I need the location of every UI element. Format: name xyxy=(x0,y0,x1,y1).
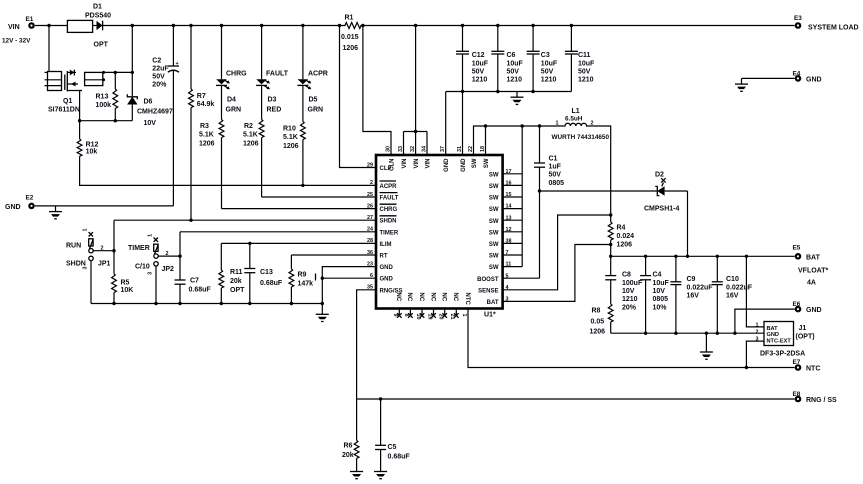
svg-text:GND: GND xyxy=(461,158,467,172)
svg-text:1: 1 xyxy=(461,314,467,317)
wire BAT pin to R4 bottom xyxy=(503,245,611,302)
svg-text:C7: C7 xyxy=(190,277,199,284)
svg-text:(OPT): (OPT) xyxy=(796,334,815,341)
svg-text:RED: RED xyxy=(267,106,282,113)
LED D4 CHRG GRN xyxy=(216,26,247,120)
svg-text:R5: R5 xyxy=(121,279,130,286)
svg-text:Q1: Q1 xyxy=(63,98,72,105)
svg-text:10uF: 10uF xyxy=(541,60,558,67)
LED D3 FAULT RED xyxy=(256,26,289,120)
svg-text:U1*: U1* xyxy=(484,312,496,319)
ground at E2 xyxy=(49,206,62,219)
svg-text:64.9k: 64.9k xyxy=(197,101,215,108)
svg-text:9: 9 xyxy=(392,314,398,317)
svg-text:5.1K: 5.1K xyxy=(243,132,258,139)
svg-text:NTC-EXT: NTC-EXT xyxy=(767,338,792,344)
wire L1 to R4 top xyxy=(594,126,611,215)
svg-text:BAT: BAT xyxy=(767,326,779,332)
svg-text:10V: 10V xyxy=(144,120,157,127)
svg-text:L1: L1 xyxy=(572,108,580,115)
svg-text:19: 19 xyxy=(426,314,432,320)
svg-text:25: 25 xyxy=(367,192,373,198)
svg-text:1210: 1210 xyxy=(622,296,638,303)
svg-text:SW: SW xyxy=(489,242,499,248)
terminal E2 GND xyxy=(5,195,34,211)
svg-text:100k: 100k xyxy=(96,102,112,109)
top pins numbers (rotated) xyxy=(386,146,487,152)
wire GND pin 6 xyxy=(322,277,376,279)
svg-text:SW: SW xyxy=(489,254,499,260)
resistor R11 20k OPT xyxy=(219,243,245,303)
svg-text:1uF: 1uF xyxy=(549,164,562,171)
svg-text:SHDN: SHDN xyxy=(66,261,86,268)
svg-text:CMPSH1-4: CMPSH1-4 xyxy=(644,205,680,212)
svg-text:R3: R3 xyxy=(200,123,209,130)
wire TIMER down through C7 xyxy=(179,232,181,280)
svg-text:R6: R6 xyxy=(344,442,353,449)
node source wire / R12 top xyxy=(78,119,81,122)
resistor R3 5.1K 1206 xyxy=(199,120,224,209)
svg-text:0.022uF: 0.022uF xyxy=(687,284,714,291)
svg-text:TIMER: TIMER xyxy=(380,230,399,236)
svg-text:CLN: CLN xyxy=(390,159,396,171)
right pins inner labels xyxy=(477,172,499,306)
terminal E4 GND xyxy=(793,70,822,83)
resistor R5 10K xyxy=(112,251,134,304)
svg-text:SW: SW xyxy=(484,158,490,168)
svg-text:D1: D1 xyxy=(93,3,102,10)
svg-text:JP1: JP1 xyxy=(98,261,111,268)
svg-text:NC: NC xyxy=(452,293,458,302)
svg-text:2: 2 xyxy=(370,180,373,186)
node rail/D5 branch xyxy=(301,24,304,27)
resistor R9 147k xyxy=(289,255,313,304)
wire VIN net rail to pins 33/32/34 xyxy=(415,26,417,132)
bottom pins NC stubs with numbers xyxy=(392,293,470,320)
svg-text:NC: NC xyxy=(429,293,435,302)
svg-text:GRN: GRN xyxy=(308,106,324,113)
wire SW pins 22/18 to SW node xyxy=(474,126,559,155)
svg-text:2: 2 xyxy=(756,330,759,336)
svg-text:E1: E1 xyxy=(26,16,34,23)
svg-text:C3: C3 xyxy=(541,52,550,59)
svg-text:RNG / SS: RNG / SS xyxy=(806,397,837,404)
svg-text:GND: GND xyxy=(806,307,822,314)
wire BOOST pin stub xyxy=(503,277,540,279)
svg-text:E6: E6 xyxy=(793,301,801,308)
resistor R1 0.015 1206 xyxy=(341,14,363,52)
terminal E3 SYSTEM LOAD xyxy=(794,15,859,31)
ground under C5 xyxy=(374,472,387,479)
svg-text:BAT: BAT xyxy=(806,254,821,261)
node rail/CLN tap xyxy=(361,24,364,27)
wire TIMER net to pin 24 xyxy=(180,231,376,233)
svg-text:0.024: 0.024 xyxy=(617,233,635,240)
svg-text:20%: 20% xyxy=(622,304,637,311)
capacitor C7 0.68uF xyxy=(175,277,212,303)
node rail/D3 branch xyxy=(260,24,263,27)
wire Q1 source drop from rail xyxy=(48,26,50,72)
svg-text:SYSTEM LOAD: SYSTEM LOAD xyxy=(808,24,859,31)
resistor R13 100k xyxy=(96,72,118,120)
capacitor C8 100uF 10V 1210 20% with series R8 xyxy=(605,256,643,311)
svg-text:16V: 16V xyxy=(687,293,700,300)
svg-text:R7: R7 xyxy=(197,93,206,100)
node rail/CLP tap xyxy=(338,24,341,27)
svg-text:SW: SW xyxy=(489,207,499,213)
svg-text:RUN: RUN xyxy=(66,243,81,250)
connector J1 DF3-3P-2DSA (OPT) xyxy=(756,322,815,358)
svg-text:GRN: GRN xyxy=(226,106,242,113)
resistor R7 64.9k xyxy=(189,26,215,221)
resistor R6 20k xyxy=(342,399,359,472)
svg-text:SW: SW xyxy=(489,219,499,225)
node rail/D6 branch xyxy=(131,24,134,27)
svg-text:0805: 0805 xyxy=(653,296,669,303)
svg-text:E4: E4 xyxy=(793,70,801,77)
svg-text:GND: GND xyxy=(5,204,21,211)
wire CHRG net to pin 26 xyxy=(222,208,377,210)
svg-text:+: + xyxy=(176,61,179,67)
capacitor C5 0.68uF xyxy=(375,399,410,472)
svg-text:C4: C4 xyxy=(653,272,662,279)
resistor R12 10k xyxy=(77,121,98,157)
wire VIN rail D1 to R1 xyxy=(103,25,344,27)
svg-text:ACPR: ACPR xyxy=(380,184,398,190)
svg-text:C13: C13 xyxy=(260,269,273,276)
svg-text:1: 1 xyxy=(83,229,89,232)
capacitor C4 10uF 10V 0805 10% xyxy=(640,256,669,333)
svg-text:FAULT: FAULT xyxy=(380,196,399,202)
resistor R4 0.024 1206 xyxy=(608,215,634,256)
svg-text:10: 10 xyxy=(415,314,421,320)
svg-text:GND: GND xyxy=(806,76,822,83)
svg-text:R1: R1 xyxy=(345,14,354,21)
wire E2 to C2 bottom xyxy=(35,205,173,207)
svg-text:ACPR: ACPR xyxy=(308,71,328,78)
svg-text:ILIM: ILIM xyxy=(380,242,392,248)
capacitor C13 0.68uF xyxy=(244,243,283,303)
wire RT net to pin 36 xyxy=(291,254,376,256)
svg-text:10K: 10K xyxy=(121,287,134,294)
node rail/D4 branch xyxy=(220,24,223,27)
wire CLP net rail to pin 29 xyxy=(340,26,377,168)
wire BOOST node to D2 xyxy=(540,190,658,192)
svg-text:VIN: VIN xyxy=(8,24,20,31)
svg-text:6.5uH: 6.5uH xyxy=(565,116,583,123)
wire BAT rail xyxy=(611,255,795,257)
terminal E8 RNG / SS xyxy=(793,391,838,404)
node rail/VIN pins tap xyxy=(414,24,417,27)
inductor L1 6.5uH WURTH 744314650 xyxy=(552,108,610,141)
svg-text:GND: GND xyxy=(380,277,394,283)
svg-text:1206: 1206 xyxy=(590,329,606,336)
wire battery cap ground bus xyxy=(611,332,764,334)
svg-text:20k: 20k xyxy=(342,452,354,459)
wire SW bus vertical xyxy=(521,126,523,267)
wire JP1 pin3 to ground rail xyxy=(90,261,92,304)
svg-text:SW: SW xyxy=(489,196,499,202)
svg-text:C2: C2 xyxy=(152,57,161,64)
svg-text:CHRG: CHRG xyxy=(226,71,247,78)
svg-text:5.1K: 5.1K xyxy=(283,134,298,141)
node ACPR / D5 column xyxy=(301,184,304,187)
op-amp U1 LT3651 body xyxy=(376,155,503,309)
svg-text:R10: R10 xyxy=(283,125,296,132)
capacitor C9 0.022uF 16V xyxy=(670,256,713,333)
svg-text:30: 30 xyxy=(386,146,392,152)
wire J1 pin1 to BAT rail xyxy=(746,256,764,327)
svg-text:4A: 4A xyxy=(807,280,816,287)
svg-text:37: 37 xyxy=(440,146,446,152)
svg-text:OPT: OPT xyxy=(230,287,245,294)
svg-text:10uF: 10uF xyxy=(578,60,595,67)
wire FAULT net to pin 25 xyxy=(262,196,376,198)
svg-text:D3: D3 xyxy=(268,97,277,104)
zener D6 CMHZ4697 10V xyxy=(127,94,173,127)
svg-text:0.68uF: 0.68uF xyxy=(260,280,283,287)
svg-text:32: 32 xyxy=(410,146,416,152)
terminal E5 BAT VFLOAT* 4A xyxy=(793,244,829,286)
svg-text:FAULT: FAULT xyxy=(266,71,289,78)
svg-text:VIN: VIN xyxy=(414,159,420,169)
svg-text:NTC: NTC xyxy=(806,366,820,373)
svg-text:26: 26 xyxy=(367,203,373,209)
svg-text:1210: 1210 xyxy=(578,77,594,84)
svg-text:C8: C8 xyxy=(622,272,631,279)
terminal E7 NTC xyxy=(793,359,821,372)
svg-text:C10: C10 xyxy=(726,276,739,283)
svg-text:50V: 50V xyxy=(472,68,485,75)
wire E6 to ground bus xyxy=(735,309,795,333)
svg-text:SW: SW xyxy=(489,184,499,190)
svg-text:10uF: 10uF xyxy=(472,60,489,67)
svg-text:DF3-3P-2DSA: DF3-3P-2DSA xyxy=(760,351,805,358)
svg-text:1206: 1206 xyxy=(283,143,299,150)
resistor R8 0.05 1206 xyxy=(590,304,614,336)
wire JP2 pin3 to ground rail xyxy=(155,266,157,304)
ground under R6 xyxy=(350,472,363,479)
svg-text:GND: GND xyxy=(767,332,779,338)
svg-text:VFLOAT*: VFLOAT* xyxy=(798,268,828,275)
node rail/R7 branch xyxy=(189,24,192,27)
svg-text:GND: GND xyxy=(444,158,450,172)
svg-text:GND: GND xyxy=(380,265,394,271)
wire Q1 source to R12/D6 node xyxy=(80,91,133,121)
capacitor C2 22uF 50V 20% (polarized) xyxy=(152,26,179,206)
svg-text:VIN: VIN xyxy=(402,159,408,169)
svg-text:BAT: BAT xyxy=(487,300,499,306)
svg-text:50V: 50V xyxy=(541,68,554,75)
svg-text:0.68uF: 0.68uF xyxy=(388,454,411,461)
svg-text:1206: 1206 xyxy=(343,45,359,52)
wire control ground rail xyxy=(91,303,322,305)
transistor Q1 SI7611DN xyxy=(45,70,106,114)
capacitor C12 10uF 50V 1210 xyxy=(456,26,489,92)
jumper JP2 TIMER/C10 xyxy=(128,234,174,275)
svg-text:SI7611DN: SI7611DN xyxy=(48,107,80,114)
wire C1/BOOST node xyxy=(538,189,541,192)
svg-text:34: 34 xyxy=(422,146,428,152)
svg-text:VIN: VIN xyxy=(426,159,432,169)
svg-text:50V: 50V xyxy=(578,68,591,75)
wire R12 to ACPR net xyxy=(80,156,376,185)
svg-text:SW: SW xyxy=(472,158,478,168)
wire GND pin 23 xyxy=(322,267,376,315)
capacitor C1 1uF 50V 0805 xyxy=(534,126,564,191)
ground input cap bus xyxy=(511,92,524,105)
svg-text:NC: NC xyxy=(395,293,401,302)
svg-text:10uF: 10uF xyxy=(507,60,524,67)
svg-text:E2: E2 xyxy=(26,195,34,202)
wire J1 pin3 to NTC net xyxy=(746,341,764,367)
svg-text:R11: R11 xyxy=(230,269,243,276)
ground control rail xyxy=(316,314,329,321)
svg-text:3: 3 xyxy=(83,267,89,270)
node rail/C3 xyxy=(531,24,534,27)
svg-text:1206: 1206 xyxy=(617,242,633,249)
wire JP1 pin2 to R5/SHDN node xyxy=(93,250,114,252)
svg-text:50V: 50V xyxy=(507,68,520,75)
svg-text:31: 31 xyxy=(457,146,463,152)
wire GND pin37 to bus xyxy=(445,92,447,156)
wire SW pins stubs to bus xyxy=(503,174,523,267)
wire RNG/SS pin 35 to E8 xyxy=(357,290,795,399)
svg-text:TIMER: TIMER xyxy=(128,245,150,252)
svg-text:PDS540: PDS540 xyxy=(85,12,111,19)
svg-text:0.68uF: 0.68uF xyxy=(189,286,212,293)
svg-text:E5: E5 xyxy=(793,244,801,251)
svg-text:SW: SW xyxy=(489,172,499,178)
svg-text:C6: C6 xyxy=(507,52,516,59)
svg-text:147k: 147k xyxy=(298,281,314,288)
capacitor C10 0.022uF 16V xyxy=(712,256,753,333)
node gate/R13 xyxy=(114,71,117,74)
svg-text:R12: R12 xyxy=(86,141,99,148)
svg-text:12V - 32V: 12V - 32V xyxy=(2,38,31,45)
svg-text:SW: SW xyxy=(489,230,499,236)
svg-text:C/10: C/10 xyxy=(135,264,150,271)
svg-text:20k: 20k xyxy=(230,278,242,285)
svg-text:0.05: 0.05 xyxy=(591,319,605,326)
wire D2 to BAT rail xyxy=(687,191,689,256)
svg-text:R4: R4 xyxy=(617,225,626,232)
svg-text:WURTH 744314650: WURTH 744314650 xyxy=(552,134,610,141)
svg-text:NC: NC xyxy=(441,293,447,302)
svg-text:1206: 1206 xyxy=(243,140,259,147)
diode D2 CMPSH1-4 (not installed) xyxy=(644,172,688,213)
wire VIN rail R1 to E3 xyxy=(363,25,795,27)
svg-text:1206: 1206 xyxy=(199,140,215,147)
svg-text:R9: R9 xyxy=(298,272,307,279)
wire SHDN down to JP1 pin2 / R5 xyxy=(113,220,115,251)
svg-text:C5: C5 xyxy=(388,444,397,451)
svg-text:C1: C1 xyxy=(549,156,558,163)
wire NTC net xyxy=(468,309,795,368)
svg-text:0.015: 0.015 xyxy=(341,34,359,41)
svg-text:29: 29 xyxy=(367,162,373,168)
node SHDN / R7 bottom xyxy=(189,219,192,222)
svg-text:10%: 10% xyxy=(653,304,668,311)
wire CLN net rail to pin 30 xyxy=(363,26,391,156)
svg-text:20%: 20% xyxy=(152,82,167,89)
svg-text:C12: C12 xyxy=(472,52,485,59)
resistor R10 5.1K 1206 xyxy=(283,122,305,186)
diode D1 PDS540 (box + diode, OPT) xyxy=(67,3,111,48)
node rail/C11 xyxy=(570,24,573,27)
svg-text:SW: SW xyxy=(489,265,499,271)
wire rail to D6 cathode xyxy=(131,26,133,97)
wire ILIM net to pin 28 xyxy=(221,242,376,244)
svg-text:3: 3 xyxy=(148,272,154,275)
jumper JP1 RUN/SHDN xyxy=(66,229,111,270)
svg-text:JP2: JP2 xyxy=(162,266,175,273)
wire E4 to ground xyxy=(742,77,795,79)
node gate/D6 vertical xyxy=(131,71,134,74)
svg-text:CHRG: CHRG xyxy=(380,207,398,213)
capacitor C3 10uF 50V 1210 xyxy=(527,26,558,92)
svg-text:SHDN: SHDN xyxy=(380,219,397,225)
svg-text:1210: 1210 xyxy=(541,77,557,84)
svg-text:D6: D6 xyxy=(144,98,153,105)
svg-text:10k: 10k xyxy=(86,149,98,156)
svg-text:2: 2 xyxy=(591,121,594,127)
svg-text:SENSE: SENSE xyxy=(478,288,498,294)
ground at E4 xyxy=(735,78,748,91)
svg-text:22uF: 22uF xyxy=(152,66,169,73)
wire JP2 pin2 to C7 column xyxy=(158,255,180,257)
svg-text:BOOST: BOOST xyxy=(477,277,499,283)
node source wire / R13 bottom xyxy=(114,119,117,122)
svg-text:21: 21 xyxy=(449,314,455,320)
wire SHDN net to pin 27 xyxy=(114,219,376,221)
svg-text:1: 1 xyxy=(556,121,559,127)
node ILIM / C13 xyxy=(248,242,251,245)
wire VIN rail E1 to D1 xyxy=(35,25,67,27)
terminal E6 GND xyxy=(793,301,822,314)
node rail/C12 xyxy=(461,24,464,27)
small tick near R9 xyxy=(315,274,317,281)
LED D5 ACPR GRN xyxy=(297,26,327,122)
svg-text:33: 33 xyxy=(398,146,404,152)
svg-text:NC: NC xyxy=(406,293,412,302)
svg-text:50V: 50V xyxy=(549,172,562,179)
svg-text:OPT: OPT xyxy=(94,42,109,49)
svg-text:1210: 1210 xyxy=(472,77,488,84)
wire Q1 gate net to D6 xyxy=(103,71,133,73)
top pins inner labels (rotated) xyxy=(390,158,491,172)
resistor R2 5.1K 1206 xyxy=(243,120,264,198)
wire SENSE pin to R4 top xyxy=(503,215,611,290)
svg-text:C9: C9 xyxy=(687,276,696,283)
svg-text:RT: RT xyxy=(380,254,388,260)
svg-text:10V: 10V xyxy=(622,288,635,295)
svg-text:10uF: 10uF xyxy=(653,280,670,287)
svg-text:16V: 16V xyxy=(726,293,739,300)
svg-text:E8: E8 xyxy=(793,391,801,398)
svg-text:8: 8 xyxy=(403,314,409,317)
svg-text:C11: C11 xyxy=(578,52,591,59)
svg-text:20: 20 xyxy=(438,314,444,320)
capacitor C6 10uF 50V 1210 xyxy=(491,26,523,92)
svg-text:0805: 0805 xyxy=(549,180,565,187)
wire input cap ground bus xyxy=(446,91,572,93)
svg-text:D4: D4 xyxy=(227,97,236,104)
svg-text:50V: 50V xyxy=(152,74,165,81)
node VIN rail / Q1 branch junction xyxy=(47,24,50,27)
terminal E1 VIN xyxy=(2,16,34,45)
svg-text:R2: R2 xyxy=(244,123,253,130)
